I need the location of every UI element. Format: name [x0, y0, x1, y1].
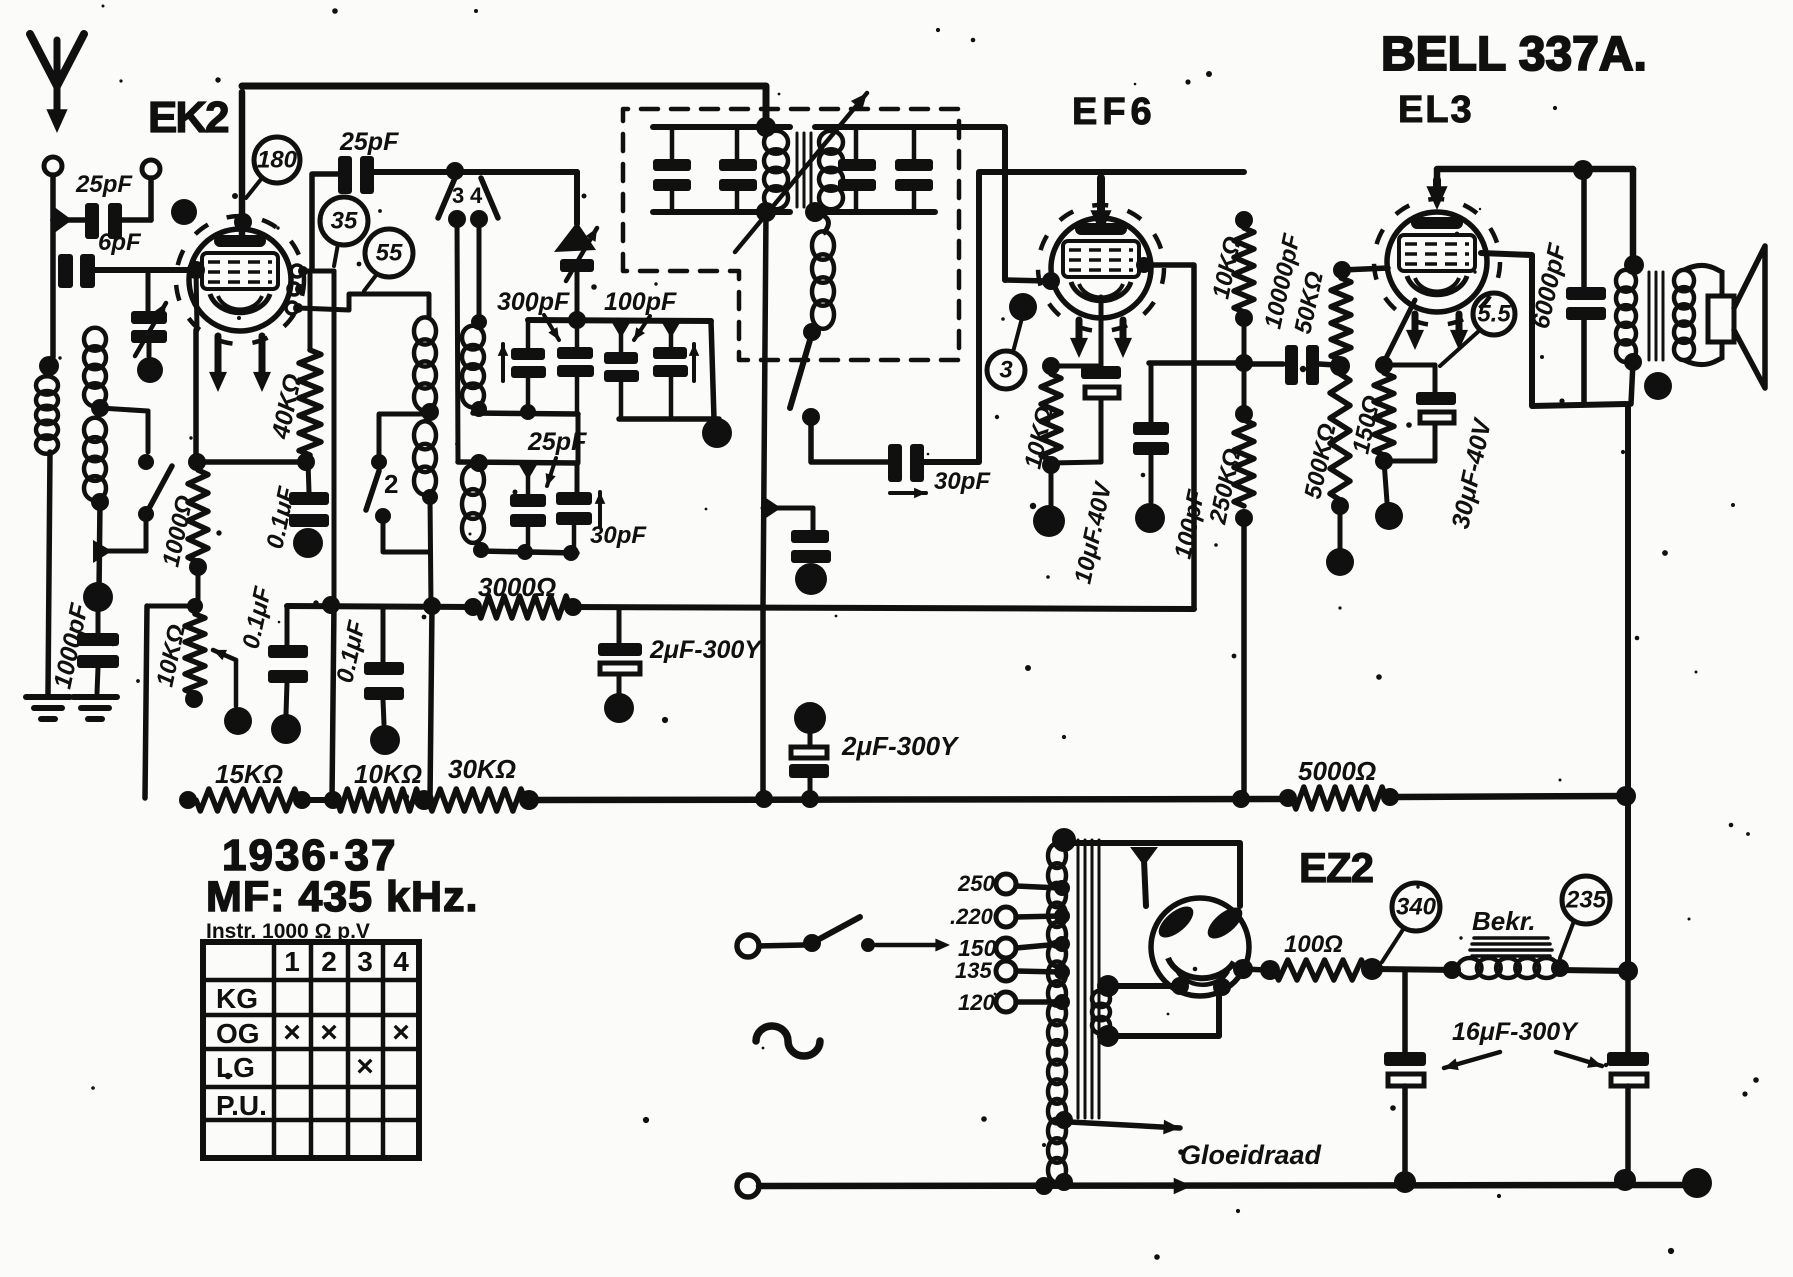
circled 5.5: [1440, 293, 1515, 366]
arrow up tank1b: [689, 344, 700, 381]
table band-switch: [203, 942, 419, 1158]
capacitor C4 25pF top: [338, 156, 374, 194]
label Instr 1000 ohm: [206, 920, 370, 943]
svg-text:235: 235: [1565, 887, 1607, 914]
node 1000 bottom: [189, 558, 207, 576]
svg-text:4: 4: [393, 946, 409, 977]
svg-text:340: 340: [1396, 894, 1437, 921]
node L2 mid: [91, 399, 109, 417]
wire cathode EK2: [188, 330, 306, 471]
svg-text:2μF-300Y: 2μF-300Y: [841, 731, 960, 761]
svg-text:2: 2: [321, 946, 337, 977]
node contact3: [448, 210, 466, 228]
label 0.1uF c: [331, 617, 371, 685]
label 30pF fb: [890, 468, 991, 498]
wire contact4 down: [477, 219, 482, 318]
node L2 bottom: [91, 493, 109, 511]
circled 340: [1382, 883, 1440, 962]
resistor 100ohm: [1274, 958, 1383, 980]
svg-text:EK2: EK2: [148, 93, 228, 142]
potentiometer 10K: [185, 614, 205, 708]
capacitor 10000pF coupling: [1244, 345, 1336, 385]
wire IF primary bottom down: [763, 212, 766, 799]
tap 250: [957, 871, 1070, 896]
resistor R 40K: [299, 350, 321, 455]
label 10uF: [1069, 478, 1117, 586]
svg-text:25pF: 25pF: [75, 171, 133, 198]
capacitor 300pF g1: [511, 320, 546, 413]
svg-text:2: 2: [384, 469, 398, 499]
wire 6pF to EK2 grid: [95, 267, 196, 273]
wire grid1 to AVC column: [306, 271, 334, 604]
label EZ2: [1299, 844, 1373, 891]
wire S2 bottom: [383, 516, 428, 552]
arrow up tank2: [595, 492, 606, 527]
IF secondary cap1: [838, 127, 876, 212]
svg-text:LG: LG: [216, 1052, 255, 1083]
bus main: [529, 789, 1297, 808]
label 100pF: [604, 288, 677, 340]
arrow up tank1: [498, 344, 509, 381]
svg-text:OG: OG: [216, 1018, 260, 1049]
svg-text:1: 1: [284, 946, 300, 977]
wire EF6 g3: [1136, 257, 1194, 609]
svg-text:×: ×: [320, 1016, 338, 1049]
antenna terminal A2: [142, 160, 160, 178]
svg-text:Gloeidraad: Gloeidraad: [1180, 1140, 1322, 1170]
capacitor mid 2uF a: [763, 496, 831, 595]
IF sec switch: [790, 323, 821, 426]
heater winding EZ2: [1092, 975, 1119, 1047]
wire 30pF to EF6 box: [924, 172, 1101, 462]
label 250K: [1204, 446, 1246, 527]
svg-text:250: 250: [957, 871, 995, 896]
label 6pF: [98, 229, 142, 256]
wire EK2 top stem: [234, 92, 252, 237]
EZ2 cathode arcs: [1168, 958, 1234, 985]
output transformer secondary: [1674, 265, 1722, 364]
circled 235: [1560, 876, 1610, 958]
svg-text:3: 3: [357, 946, 373, 977]
svg-text:100pF: 100pF: [604, 288, 677, 316]
coil L2a: [84, 328, 106, 407]
label 100pF EF6: [1169, 486, 1210, 561]
label 25pF top: [339, 128, 399, 156]
EZ2 anodes: [1153, 901, 1247, 944]
capacitor 2uF-300V a: [598, 609, 642, 723]
wire tank1 bottom rail: [473, 404, 578, 463]
blob EF6 shield: [1009, 293, 1037, 321]
IF primary cap2: [719, 127, 757, 212]
junction blob left of EK2: [171, 199, 197, 225]
coil P2 osc: [414, 421, 436, 495]
label 300pF: [497, 288, 570, 340]
svg-text:2μF-300Y: 2μF-300Y: [649, 636, 763, 664]
resistor 10K cath: [1041, 357, 1101, 474]
svg-text:EL3: EL3: [1398, 89, 1474, 131]
capacitor 16uF a: [1384, 970, 1426, 1180]
svg-text:25pF: 25pF: [527, 428, 587, 456]
node coupling out: [1330, 356, 1350, 376]
label 30uF: [1446, 415, 1497, 532]
capacitor 30uF: [1384, 365, 1456, 461]
bus to right riser: [1390, 786, 1636, 806]
resistor 250K: [1234, 363, 1254, 799]
label EF6: [1072, 91, 1157, 133]
wire EL3 anode: [1481, 253, 1626, 406]
antenna: [30, 34, 84, 133]
svg-text:55: 55: [376, 240, 403, 267]
tube EF6: [1038, 205, 1164, 331]
switch S1: [93, 408, 172, 563]
antenna terminal A1: [44, 157, 62, 175]
mains terminal N: [737, 1175, 759, 1197]
wire 25pF top left: [312, 174, 338, 268]
wire AVC column down: [332, 604, 334, 800]
label 25pF antenna: [75, 171, 133, 198]
EZ2 output: [1233, 959, 1280, 980]
tap 150: [996, 936, 1070, 958]
capacitor 100pF EF6: [1133, 363, 1169, 533]
wire osc grid: [298, 294, 429, 318]
label 1936-37: [222, 831, 397, 880]
svg-text:16μF-300Y: 16μF-300Y: [1452, 1018, 1579, 1046]
tap 135: [955, 958, 1070, 983]
tube EL3 arrows: [1406, 314, 1468, 350]
wire 1000 to pot: [187, 567, 203, 614]
tube EL3: [1374, 199, 1500, 325]
mains switch: [759, 917, 950, 952]
svg-text:×: ×: [356, 1050, 374, 1083]
node antenna coil top: [39, 356, 59, 376]
svg-text:5.5: 5.5: [1477, 301, 1511, 328]
svg-text:Instr. 1000 Ω p.V: Instr. 1000 Ω p.V: [206, 920, 370, 943]
capacitor 30pF t2: [556, 492, 592, 552]
label 15K: [215, 759, 283, 789]
coil S bandset: [462, 465, 489, 558]
label 1000pF: [48, 600, 93, 691]
switch S2 contact: [366, 454, 398, 524]
wire L1 to ground: [48, 452, 50, 695]
resistor 5000: [1292, 787, 1399, 809]
label Bekr: [1472, 906, 1536, 936]
node P bottom: [422, 489, 438, 505]
svg-text:15KΩ: 15KΩ: [215, 759, 283, 789]
node grid EK2: [187, 261, 205, 279]
resistor 30K: [428, 789, 539, 811]
label 10K anode: [1207, 234, 1247, 301]
tap 220: [950, 904, 1070, 929]
label 10K bus: [354, 759, 422, 789]
label 25pF mid: [527, 428, 587, 486]
bottom rail: [759, 1169, 1697, 1195]
coil L2b: [84, 418, 106, 501]
capacitor 30pF fb: [888, 444, 924, 482]
wire EL3 anode rail: [1426, 160, 1633, 210]
wire rail 3000 to EF6: [573, 607, 1194, 609]
IF tuning arrow: [735, 93, 867, 252]
node P mid: [421, 403, 439, 421]
svg-text:3: 3: [452, 183, 464, 208]
tube EF6 arrows: [1070, 320, 1132, 358]
capacitor C2 6pF: [58, 254, 95, 288]
wire pot top left: [145, 606, 195, 798]
wire screen column: [308, 271, 313, 350]
svg-text:300pF: 300pF: [497, 288, 570, 316]
IF dashed box: [623, 109, 959, 360]
circled 55: [364, 229, 413, 291]
svg-text:30pF: 30pF: [934, 468, 991, 495]
resistor 3000ohm: [464, 596, 582, 618]
capacitor C1 25pF antenna: [85, 203, 122, 239]
speaker: [1708, 246, 1765, 388]
wire grid-column down: [196, 270, 197, 330]
coil P1 osc: [414, 317, 436, 410]
tube EK2: [176, 216, 304, 344]
svg-text:3: 3: [999, 357, 1013, 384]
coil R bandset: [462, 314, 487, 417]
svg-text:100Ω: 100Ω: [1284, 931, 1343, 958]
power transformer heater tap: [1055, 1111, 1180, 1134]
svg-text:P.U.: P.U.: [216, 1090, 267, 1121]
wire to 30pF: [811, 417, 888, 462]
label 100ohm: [1284, 931, 1343, 958]
label 6000pF: [1526, 240, 1571, 331]
resistor 500K: [1326, 374, 1354, 576]
resistor 10K anode: [1234, 211, 1254, 363]
IF core: [797, 133, 811, 207]
label 2uF-300V a: [649, 636, 763, 664]
wire IF secondary top to EF6: [935, 127, 1005, 280]
choke Bekr: [1458, 938, 1559, 978]
wire L2 bottom down: [99, 502, 100, 592]
label 3000ohm: [478, 572, 556, 602]
label 150: [1347, 393, 1386, 456]
IF primary cap1: [653, 127, 691, 212]
resistor 15K: [196, 789, 311, 811]
label 150 arrowed: [958, 935, 997, 961]
capacitor 0.1uF b: [268, 607, 308, 744]
label 10K pot: [151, 622, 191, 689]
svg-text:35: 35: [331, 208, 358, 235]
resistor 150: [1374, 373, 1394, 470]
label 50K: [1289, 269, 1329, 336]
svg-text:10KΩ: 10KΩ: [354, 759, 422, 789]
capacitor 0.1uF a: [289, 462, 329, 558]
tap 120: [958, 990, 1070, 1015]
capacitor 0.1uF c: [364, 609, 404, 755]
svg-text:5000Ω: 5000Ω: [1298, 756, 1376, 786]
blob transformer: [1644, 372, 1672, 400]
label 0.1uF b: [237, 583, 277, 651]
svg-text:KG: KG: [216, 983, 258, 1014]
label 500K: [1299, 421, 1341, 501]
IF primary rails: [653, 117, 790, 222]
capacitor 25pF t1: [510, 463, 546, 552]
circled 35: [320, 197, 368, 266]
blob cap mid: [789, 702, 829, 799]
svg-text:Bekr.: Bekr.: [1472, 906, 1536, 936]
svg-text:180: 180: [257, 147, 298, 174]
power transformer primary: [1048, 828, 1076, 1182]
EL3 cathode: [1375, 300, 1415, 374]
IF primary coil: [764, 131, 788, 210]
capacitor 10uF cath: [1033, 366, 1121, 537]
IF secondary rails: [805, 127, 935, 222]
wire antenna down: [50, 220, 56, 357]
circled 3: [987, 318, 1025, 389]
capacitor 300pF g2: [557, 320, 594, 414]
label 30K: [448, 754, 516, 784]
wire 100 to choke: [1372, 961, 1461, 979]
wire 150 to blob: [1375, 461, 1403, 530]
node EF6 grid: [1005, 272, 1060, 290]
wire 25pF top right: [374, 162, 577, 180]
tank1 bottom rail r: [619, 418, 732, 448]
resistor 50K: [1331, 261, 1351, 360]
capacitor 100pF g3: [604, 321, 639, 419]
label 0.1uF a: [261, 483, 301, 551]
tube EZ2: [1151, 898, 1249, 996]
node 1000pF top blob: [83, 582, 113, 612]
IF sec bottom coil: [812, 212, 834, 329]
svg-text:×: ×: [283, 1016, 301, 1049]
coil L1 antenna: [36, 376, 58, 454]
wire top bus EK2 to IF: [242, 86, 766, 124]
tank2 bottom rail: [481, 544, 579, 561]
wire anode node: [1149, 354, 1253, 372]
wire EZ2 heater feed: [1064, 843, 1240, 906]
switch S3 contact 3: [438, 178, 464, 218]
node 40K bottom: [297, 453, 315, 471]
svg-text:4: 4: [470, 183, 483, 208]
EZ2 filament loop: [1108, 977, 1231, 1036]
switch S4 contact 4: [470, 178, 498, 218]
circled 180: [246, 137, 300, 198]
wire S2 top: [379, 414, 428, 462]
label 16uF: [1444, 1018, 1602, 1070]
bottom rail end blob: [1682, 1168, 1712, 1198]
wire 25pF to terminal A2: [122, 178, 151, 220]
trimmer 300pF: [554, 172, 597, 318]
IF secondary coil: [819, 131, 843, 210]
capacitor 100pF g4: [653, 321, 688, 419]
svg-text:120: 120: [958, 990, 995, 1015]
bus seg: [302, 791, 342, 809]
tube EK2 grid pins: [286, 265, 308, 314]
wire choke out: [1551, 959, 1628, 977]
resistor 10K bus: [337, 789, 434, 811]
resistor 1000ohm: [188, 470, 208, 562]
sine symbol: [756, 1026, 820, 1056]
svg-text:MF: 435 kHz.: MF: 435 kHz.: [206, 873, 478, 921]
tank2 top rail: [458, 454, 577, 494]
wire EL3 grid: [1342, 268, 1388, 270]
wire contact3 down: [457, 219, 458, 462]
svg-text:EZ2: EZ2: [1299, 844, 1373, 891]
label EL3: [1398, 89, 1474, 131]
wire transformer bottom: [1055, 1173, 1073, 1191]
svg-text:30KΩ: 30KΩ: [448, 754, 516, 784]
label BELL: [1381, 28, 1647, 81]
label 30pF mid: [590, 522, 647, 549]
label 5000: [1298, 756, 1376, 786]
label EK2 title: [148, 93, 228, 142]
svg-text:EF6: EF6: [1072, 91, 1157, 133]
tank1 top rail: [528, 311, 714, 419]
svg-text:BELL 337A.: BELL 337A.: [1381, 28, 1647, 81]
wire right riser: [1618, 404, 1638, 981]
EF6 cathode: [1099, 297, 1104, 366]
label Gloeidraad: [1180, 1140, 1322, 1170]
capacitor 6000pF: [1566, 169, 1606, 404]
bus left riser: [179, 791, 197, 809]
capacitor C3 1000pF: [77, 612, 119, 693]
wire EF6 anode rail: [1090, 172, 1244, 234]
label 1000ohm: [157, 493, 198, 569]
power transformer core: [1078, 840, 1099, 1118]
label MF: [206, 873, 478, 921]
output transformer core: [1649, 272, 1663, 360]
trimmer cap antenna: [131, 270, 167, 383]
tube EK2 heater arrows: [209, 336, 271, 392]
ground G2: [73, 697, 117, 719]
mains terminal L: [737, 935, 759, 957]
ground G1: [26, 697, 70, 719]
label 2uF-300V b: [841, 731, 960, 761]
label 40K: [266, 371, 307, 442]
wire AVC rail y606: [287, 596, 473, 615]
svg-text:135: 135: [955, 958, 992, 983]
svg-text:25pF: 25pF: [339, 128, 399, 156]
svg-text:×: ×: [392, 1016, 410, 1049]
output transformer primary: [1616, 169, 1644, 404]
wire P column down: [430, 497, 432, 800]
svg-text:3000Ω: 3000Ω: [478, 572, 556, 602]
wire antenna to 25pF: [53, 175, 85, 234]
node contact4: [470, 210, 488, 228]
svg-text:.220: .220: [950, 904, 994, 929]
svg-text:6pF: 6pF: [98, 229, 142, 256]
label 10000pF: [1259, 230, 1306, 331]
label 10K cath: [1019, 404, 1059, 471]
capacitor 16uF b: [1607, 971, 1649, 1180]
pot wiper arrow: [213, 650, 252, 735]
IF secondary cap2: [895, 127, 933, 212]
